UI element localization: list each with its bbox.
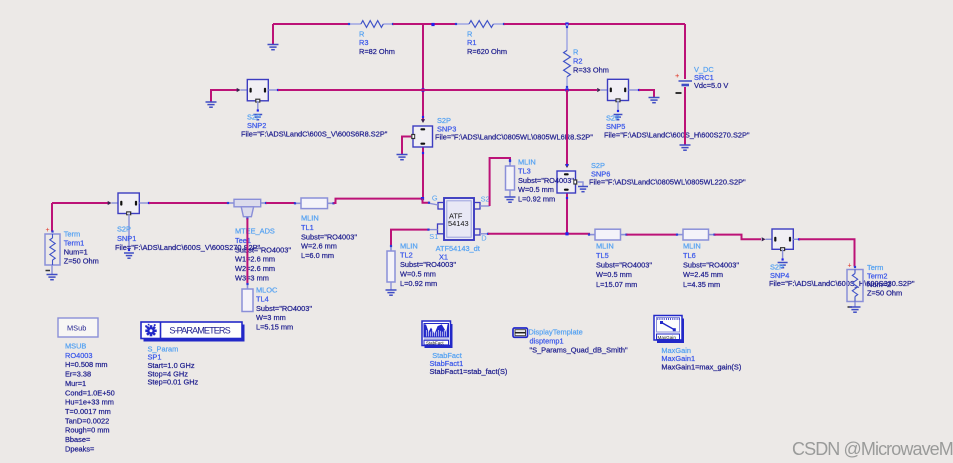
ground TL2 xyxy=(386,290,397,295)
ground SNP5 right xyxy=(649,98,660,103)
node rail junction at R2 top xyxy=(565,22,568,25)
svg-text:File="F:\ADS\LandC\0805WL\0805: File="F:\ADS\LandC\0805WL\0805WL6R8.S2P" xyxy=(435,133,593,142)
wire TL5 to TL6 xyxy=(627,234,678,236)
dc source V_DC SRC1 xyxy=(675,71,692,93)
wire MTEE to TL1 xyxy=(266,202,295,204)
port Term2 xyxy=(847,263,863,308)
wire rail down to V_DC plus xyxy=(684,24,686,79)
ground SNP5 ref xyxy=(614,115,623,120)
svg-text:MSub: MSub xyxy=(67,324,86,333)
mlin TL2 xyxy=(387,245,395,282)
svg-text:+: + xyxy=(848,263,852,270)
node junction R2 bottom xyxy=(565,88,568,91)
node junction SNP2 line x423 xyxy=(421,88,424,91)
port Term1 xyxy=(45,227,60,271)
node SNP5 ref end xyxy=(617,110,619,112)
wire TL2 bottom to ground xyxy=(390,282,392,290)
s2p SNP4 xyxy=(772,229,793,251)
mlin TL6 xyxy=(676,229,716,240)
svg-text:+: + xyxy=(46,227,50,234)
svg-text:File="F:\ADS\LandC\600S_H\600S: File="F:\ADS\LandC\600S_H\600S330.S2P" xyxy=(769,279,915,288)
node rail junction at x433 xyxy=(431,23,434,26)
wire MTEE stem down to MLOC TL4 xyxy=(246,219,248,285)
wire SNP6 bottom to drain junction xyxy=(566,193,568,234)
sparam controller box xyxy=(141,322,245,342)
node drain junction xyxy=(565,232,568,235)
resistor R1 xyxy=(455,21,505,28)
wire SNP4 ref stub xyxy=(782,249,784,259)
wire Term2 bottom stem xyxy=(854,302,856,307)
wire SNP5 ref stub xyxy=(617,101,619,112)
mlin TL5 xyxy=(588,229,628,240)
wire R2 junction down to SNP6 xyxy=(566,90,568,165)
ground SNP3 left xyxy=(397,155,408,160)
pin arrow SNP2 left xyxy=(237,88,241,92)
displaytemplate icon xyxy=(513,328,528,337)
wire SNP2 ref stub xyxy=(257,101,259,111)
s2p SNP6 xyxy=(557,171,577,193)
node SNP2 right pin xyxy=(277,89,279,91)
node SNP6 bottom pin xyxy=(566,197,568,199)
pin arrow SNP6 top xyxy=(565,164,569,168)
msub box xyxy=(58,318,98,337)
wire Term1 bottom stem xyxy=(51,265,53,274)
wire rail between R3 and R1 xyxy=(393,23,456,25)
stabfact icon xyxy=(422,321,453,348)
pin arrow SNP4 left xyxy=(762,237,766,241)
wire SNP3 ref to ground xyxy=(402,137,411,155)
node SNP1 right pin xyxy=(148,202,150,204)
mlin TL1 xyxy=(294,198,335,209)
svg-text:File="F:\ADS\LandC\600S_H\600S: File="F:\ADS\LandC\600S_H\600S270.S2P" xyxy=(604,130,750,139)
wire S2 up to TL3 xyxy=(490,158,510,206)
ground top-left rail xyxy=(268,45,279,50)
wire SNP5 right to ground xyxy=(639,90,654,97)
ground SNP4 ref xyxy=(778,263,788,268)
wire SNP4 to Term2 xyxy=(799,239,855,266)
wire SNP5 right lead xyxy=(629,89,640,91)
svg-text:MaxGain: MaxGain xyxy=(658,335,677,340)
svg-text:File="F:\ADS\LandC\600S_V\600S: File="F:\ADS\LandC\600S_V\600S6R8.S2P" xyxy=(241,130,388,139)
node SNP2 ref end xyxy=(257,109,259,111)
node SNP3 top pin xyxy=(422,116,424,118)
wire TL6 to SNP4 xyxy=(715,235,762,240)
wire SNP6 ref to ground xyxy=(578,182,584,186)
wire SNP2 to SNP5 long run xyxy=(278,89,597,91)
pin lead gate xyxy=(429,203,438,205)
pin arrow SNP1 left xyxy=(108,201,112,205)
svg-text:File="F:\ADS\LandC\0805WL\0805: File="F:\ADS\LandC\0805WL\0805WL220.S2P" xyxy=(589,178,746,187)
tee MTEE_ADS Tee1 xyxy=(227,199,267,219)
ground V_DC xyxy=(680,145,691,150)
ground Term1 xyxy=(47,275,58,280)
node SNP4 right pin xyxy=(798,238,800,240)
mlin TL3 xyxy=(506,160,515,190)
maxgain icon xyxy=(654,316,684,344)
ground Term2 xyxy=(850,307,861,312)
s2p SNP5 xyxy=(608,79,629,102)
wire SNP2 left pin to ground xyxy=(211,90,237,102)
pin arrow SNP5 left xyxy=(597,88,601,92)
wire top rail left segment xyxy=(273,23,349,25)
s2p SNP2 xyxy=(247,80,268,103)
s2p SNP1 xyxy=(118,193,139,215)
wire x423 rail down to SNP3 top xyxy=(422,24,424,121)
node gate junction xyxy=(421,197,424,200)
wire SNP1 to MTEE xyxy=(149,202,228,204)
svg-text:StabFact: StabFact xyxy=(426,340,444,345)
wire junction to gate pin xyxy=(423,199,430,203)
node SNP6 top pin xyxy=(566,164,568,166)
mloc TL4 xyxy=(242,283,253,312)
svg-text:54143: 54143 xyxy=(448,219,469,228)
svg-text:+: + xyxy=(675,71,680,80)
ground SNP2 ref xyxy=(253,115,262,120)
resistor R2 xyxy=(564,24,571,90)
ground TL3 xyxy=(505,197,516,202)
wire S1 to TL2 xyxy=(391,230,429,246)
wire SNP4 right lead xyxy=(793,238,799,240)
wire D to TL5 xyxy=(488,233,589,236)
wire SNP1 ref stub xyxy=(128,214,130,251)
wire SNP2 right lead xyxy=(268,89,278,91)
ground SNP1 ref xyxy=(124,253,134,258)
resistor R3 xyxy=(348,21,394,28)
transistor ATF54143 X1 xyxy=(438,198,481,240)
wire rail from R1 to V_DC xyxy=(504,23,685,25)
node SNP4 ref end xyxy=(782,258,784,260)
node SNP3 bottom pin xyxy=(422,152,424,154)
svg-text:S-PARAMETERS: S-PARAMETERS xyxy=(169,326,230,336)
wire input corner down to Term1 xyxy=(51,203,53,232)
wire TL3 bottom to ground xyxy=(509,190,511,197)
wire V_DC minus to ground xyxy=(684,87,686,145)
pin lead S2 xyxy=(480,205,490,207)
node TL3 top pin xyxy=(509,159,511,161)
pin lead D xyxy=(480,233,488,235)
ground SNP2 left xyxy=(206,102,217,107)
node SNP1 ref end xyxy=(128,249,130,251)
ground SNP6 right xyxy=(578,187,588,192)
wire SNP3 bottom to gate junction xyxy=(422,147,424,199)
wire TL1 to gate junction xyxy=(334,199,423,203)
svg-text:CSDN @MicrowaveM: CSDN @MicrowaveM xyxy=(792,439,953,459)
wire Term1 to SNP1 xyxy=(52,202,109,204)
svg-text:DisplayTemplate: DisplayTemplate xyxy=(529,327,583,336)
s2p SNP3 xyxy=(411,126,432,147)
node SNP5 right pin xyxy=(638,89,640,91)
pin arrow SNP3 top xyxy=(421,119,425,123)
wire rail stub down to left ground xyxy=(272,24,274,44)
pin lead S1 xyxy=(429,229,438,231)
wire SNP1 right lead xyxy=(139,202,149,204)
